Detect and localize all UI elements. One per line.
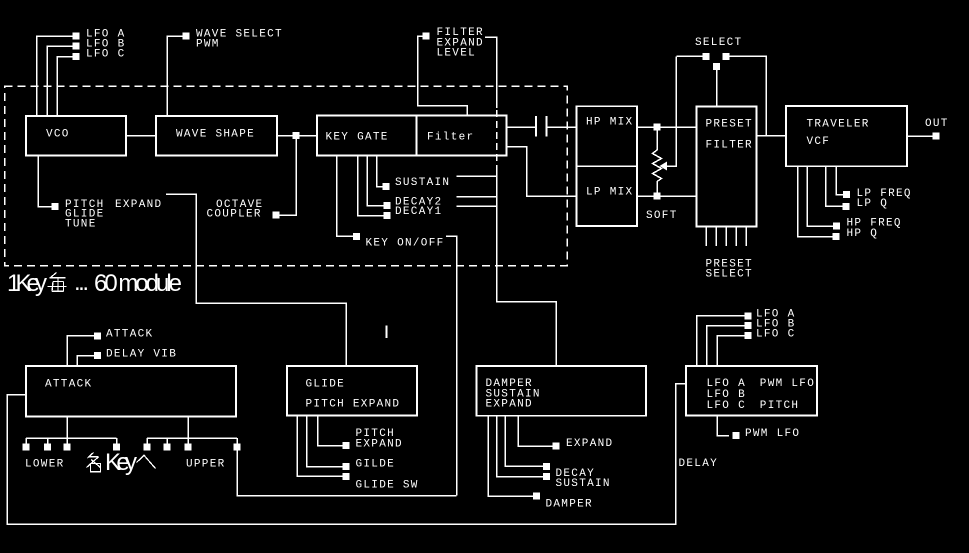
node SELECT centre [713, 63, 720, 70]
wire VCO to WAVE SHAPE [126, 135, 156, 137]
node GILDE [343, 463, 350, 470]
wire LFO C to VCO [57, 57, 76, 117]
wire HP Q pin [798, 166, 833, 236]
wire upper comb to key on/off line [237, 450, 457, 496]
wire TRAVELER to OUT [907, 135, 933, 137]
wire decay pin [505, 416, 543, 467]
capacitor C1 plate right [546, 116, 548, 137]
wire FILTER EXPAND LEVEL right bracket [485, 37, 497, 108]
wire damper pin [488, 416, 533, 496]
wire Filter to capacitor [507, 126, 537, 128]
svg-text:SOFT: SOFT [646, 210, 678, 222]
node KEY ON/OFF [353, 233, 360, 240]
node WAVE SELECT tap [183, 33, 190, 40]
wire HP MIX to PRESET FILTER [637, 126, 697, 128]
wire soft pot wiper from SELECT [667, 56, 676, 166]
wire LFO B to VCO [47, 46, 76, 116]
node LFO B tap [73, 43, 80, 50]
block WAVE SHAPE [156, 116, 277, 156]
node lower 3 [64, 444, 71, 451]
potentiometer SOFT resistor [653, 127, 662, 196]
wire WAVE SELECT to WAVE SHAPE [167, 36, 186, 116]
node DECAY [543, 463, 550, 470]
node SUSTAIN (damper) [543, 473, 550, 480]
rail lower comb [26, 437, 117, 439]
svg-text:EXPAND: EXPAND [356, 439, 403, 451]
arrowhead soft pot wiper [660, 162, 668, 171]
wire LFO B pin [707, 326, 746, 366]
mark vertical bar [386, 326, 388, 339]
svg-text:TRAVELER: TRAVELER [807, 119, 870, 131]
node LP Q [843, 203, 850, 210]
svg-text:EXPAND: EXPAND [566, 438, 613, 450]
block HP MIX [577, 106, 638, 166]
svg-text:LEVEL: LEVEL [437, 48, 477, 60]
svg-text:LOWER: LOWER [25, 459, 65, 471]
dashed module boundary (1 key module) [5, 86, 568, 266]
wire DECAY2 pin [367, 156, 384, 206]
svg-text:PWM LFO: PWM LFO [745, 428, 800, 440]
svg-text:TUNE: TUNE [65, 219, 97, 231]
svg-text:1Key: 1Key [7, 270, 47, 297]
kana HE [137, 455, 156, 468]
svg-text:PITCH: PITCH [760, 400, 800, 412]
node upper 1 [144, 444, 151, 451]
node HP FREQ [833, 223, 840, 230]
node PITCH GLIDE TUNE [52, 203, 59, 210]
svg-text:ATTACK: ATTACK [45, 379, 92, 391]
svg-text:DAMPER: DAMPER [546, 499, 593, 511]
block ATTACK [26, 366, 236, 417]
svg-text:...: ... [74, 269, 89, 296]
block LFO [686, 366, 817, 416]
svg-text:HP MIX: HP MIX [586, 117, 633, 129]
node octave coupler tap on wire [293, 132, 300, 139]
node PWM LFO [733, 432, 740, 439]
wire LP Q pin [826, 166, 843, 206]
node soft pot bottom [654, 193, 661, 200]
node LFO B (block) [745, 322, 752, 329]
svg-text:LFO C: LFO C [756, 329, 796, 341]
svg-text:GLIDE: GLIDE [306, 379, 346, 391]
svg-text:GILDE: GILDE [356, 459, 396, 471]
node OCTAVE COUPLER [273, 212, 280, 219]
svg-text:KEY ON/OFF: KEY ON/OFF [366, 238, 445, 250]
svg-text:KEY GATE: KEY GATE [326, 132, 389, 144]
wire SELECT left to soft wiper [676, 55, 702, 57]
svg-text:SELECT: SELECT [695, 37, 742, 49]
node DAMPER [533, 493, 540, 500]
svg-text:OUT: OUT [925, 118, 949, 130]
wire SUSTAIN pin [377, 156, 384, 187]
pin preset select 1 [705, 227, 707, 247]
node DECAY2 [384, 202, 391, 209]
wire LP MIX to PRESET FILTER [637, 195, 697, 197]
node PITCH EXPAND [343, 442, 350, 449]
svg-text:PITCH EXPAND: PITCH EXPAND [306, 399, 401, 411]
wire capacitor to HP MIX [547, 126, 577, 128]
node DECAY1 [384, 212, 391, 219]
node upper 4 [234, 444, 241, 451]
svg-text:VCO: VCO [46, 129, 70, 141]
svg-text:60 module: 60 module [94, 270, 182, 297]
pin preset select 2 [715, 227, 717, 247]
wire WAVE SHAPE to KEY GATE [277, 135, 317, 137]
node upper 3 [185, 444, 192, 451]
block KEY GATE / Filter [317, 116, 507, 156]
svg-text:DELAY: DELAY [679, 458, 719, 470]
svg-text:HP Q: HP Q [847, 228, 879, 240]
wire DELAY VIB tap to block [77, 356, 94, 366]
wire ATTACK to lower comb [66, 417, 68, 439]
svg-text:Key: Key [105, 449, 137, 476]
tooth lower 3 [66, 438, 68, 444]
wire ATTACK left to bottom bus [7, 384, 686, 525]
wire ATTACK tap to block [67, 336, 94, 366]
capacitor C1 plate left [535, 116, 537, 137]
kanji MAI (every) [48, 273, 67, 292]
svg-text:WAVE SHAPE: WAVE SHAPE [176, 129, 255, 141]
dashed divider through Filter box [496, 110, 498, 163]
block GLIDE [287, 366, 417, 416]
wire KEY ON/OFF pin [337, 156, 354, 237]
svg-text:LFO C: LFO C [86, 49, 126, 61]
wire LFO A pin [697, 316, 746, 366]
wire pitch expand pin [318, 416, 344, 446]
svg-text:GLIDE SW: GLIDE SW [356, 480, 419, 492]
svg-text:LP Q: LP Q [857, 198, 889, 210]
svg-text:ATTACK: ATTACK [106, 329, 153, 341]
tooth upper 2 [166, 438, 168, 444]
block LP MIX [577, 166, 638, 226]
wire DECAY1 bus line [457, 205, 497, 207]
wire SUSTAIN bus line [457, 175, 497, 177]
wire PWM LFO pin [717, 416, 729, 436]
node OUT [933, 133, 940, 140]
tooth upper 1 [146, 438, 148, 444]
node LP FREQ [843, 191, 850, 198]
wire PRESET FILTER to TRAVELER [757, 135, 787, 137]
wire KEY ON/OFF bracket down to lower rail [446, 236, 457, 495]
rail upper comb [147, 437, 237, 439]
svg-text:SUSTAIN: SUSTAIN [556, 478, 611, 490]
node HP Q [833, 233, 840, 240]
wire DECAY2 bus line [457, 196, 497, 198]
svg-text:DELAY VIB: DELAY VIB [106, 349, 177, 361]
svg-text:LP MIX: LP MIX [586, 187, 633, 199]
block DAMPER SUSTAIN EXPAND [477, 366, 647, 416]
wire gilde pin [307, 416, 343, 467]
node EXPAND (damper) [553, 443, 560, 450]
svg-text:SELECT: SELECT [706, 269, 753, 281]
tooth upper 4 [236, 438, 238, 444]
svg-text:SUSTAIN: SUSTAIN [395, 177, 450, 189]
pin preset select 3 [725, 227, 727, 247]
svg-text:PRESET: PRESET [706, 119, 753, 131]
wire DECAY1 pin [358, 156, 385, 216]
wire PITCH EXPAND down to GLIDE block [166, 194, 346, 366]
tooth lower 2 [47, 438, 49, 444]
node lower 4 [113, 444, 120, 451]
node LFO A tap [73, 33, 80, 40]
wire SELECT right down to preset output [730, 56, 767, 135]
node soft pot top [654, 124, 661, 131]
svg-text:EXPAND: EXPAND [486, 399, 533, 411]
tooth lower 4 [116, 438, 118, 444]
pin preset select 4 [735, 227, 737, 247]
block PRESET FILTER [697, 107, 757, 227]
wire octave coupler tap down [279, 136, 296, 215]
node LFO C (block) [745, 332, 752, 339]
block VCO [26, 116, 126, 156]
node GLIDE SW [343, 473, 350, 480]
node lower 1 [23, 444, 30, 451]
node SELECT right [723, 53, 730, 60]
tooth upper 3 [187, 438, 189, 444]
wire SELECT centre to PRESET FILTER [716, 70, 718, 107]
wire sustain pin (damper) [497, 416, 544, 477]
node lower 2 [44, 444, 51, 451]
node LFO A (block) [745, 312, 752, 319]
wire FILTER EXPAND LEVEL left bracket to Filter box [418, 36, 468, 116]
node ATTACK tap [94, 332, 101, 339]
svg-text:Filter: Filter [427, 132, 474, 144]
wire glide sw pin [297, 416, 343, 477]
divider KEY GATE/Filter [416, 116, 418, 156]
node DELAY VIB tap [94, 352, 101, 359]
wire Filter lower output to LP MIX [507, 147, 577, 197]
svg-text:EXPAND: EXPAND [115, 199, 162, 211]
wire LFO A to VCO [37, 36, 77, 116]
node upper 2 [164, 444, 171, 451]
wire trunk to DAMPER block [497, 165, 556, 366]
node SUSTAIN [383, 183, 390, 190]
wire VCO to PITCH GLIDE TUNE [38, 156, 52, 207]
wire ATTACK to upper comb [187, 417, 189, 439]
svg-text:COUPLER: COUPLER [207, 209, 262, 221]
svg-text:DECAY1: DECAY1 [395, 206, 442, 218]
svg-text:UPPER: UPPER [186, 459, 226, 471]
svg-text:PWM: PWM [196, 39, 220, 51]
node SELECT left [703, 53, 710, 60]
svg-text:FILTER: FILTER [706, 140, 753, 152]
svg-text:VCF: VCF [807, 136, 831, 148]
kanji KAKU (each) [87, 453, 102, 472]
node LFO C tap [73, 53, 80, 60]
node FILTER EXPAND LEVEL tap [423, 33, 430, 40]
svg-text:PWM LFO: PWM LFO [760, 378, 815, 390]
wire LFO C pin [717, 336, 745, 366]
wire expand pin (damper) [518, 416, 553, 446]
wire HP FREQ pin [807, 166, 833, 226]
svg-text:LFO C: LFO C [707, 400, 747, 412]
pin preset select 5 [745, 227, 747, 247]
tooth lower 1 [25, 438, 27, 444]
wire LP FREQ pin [836, 166, 843, 194]
block TRAVELER VCF [786, 106, 907, 166]
